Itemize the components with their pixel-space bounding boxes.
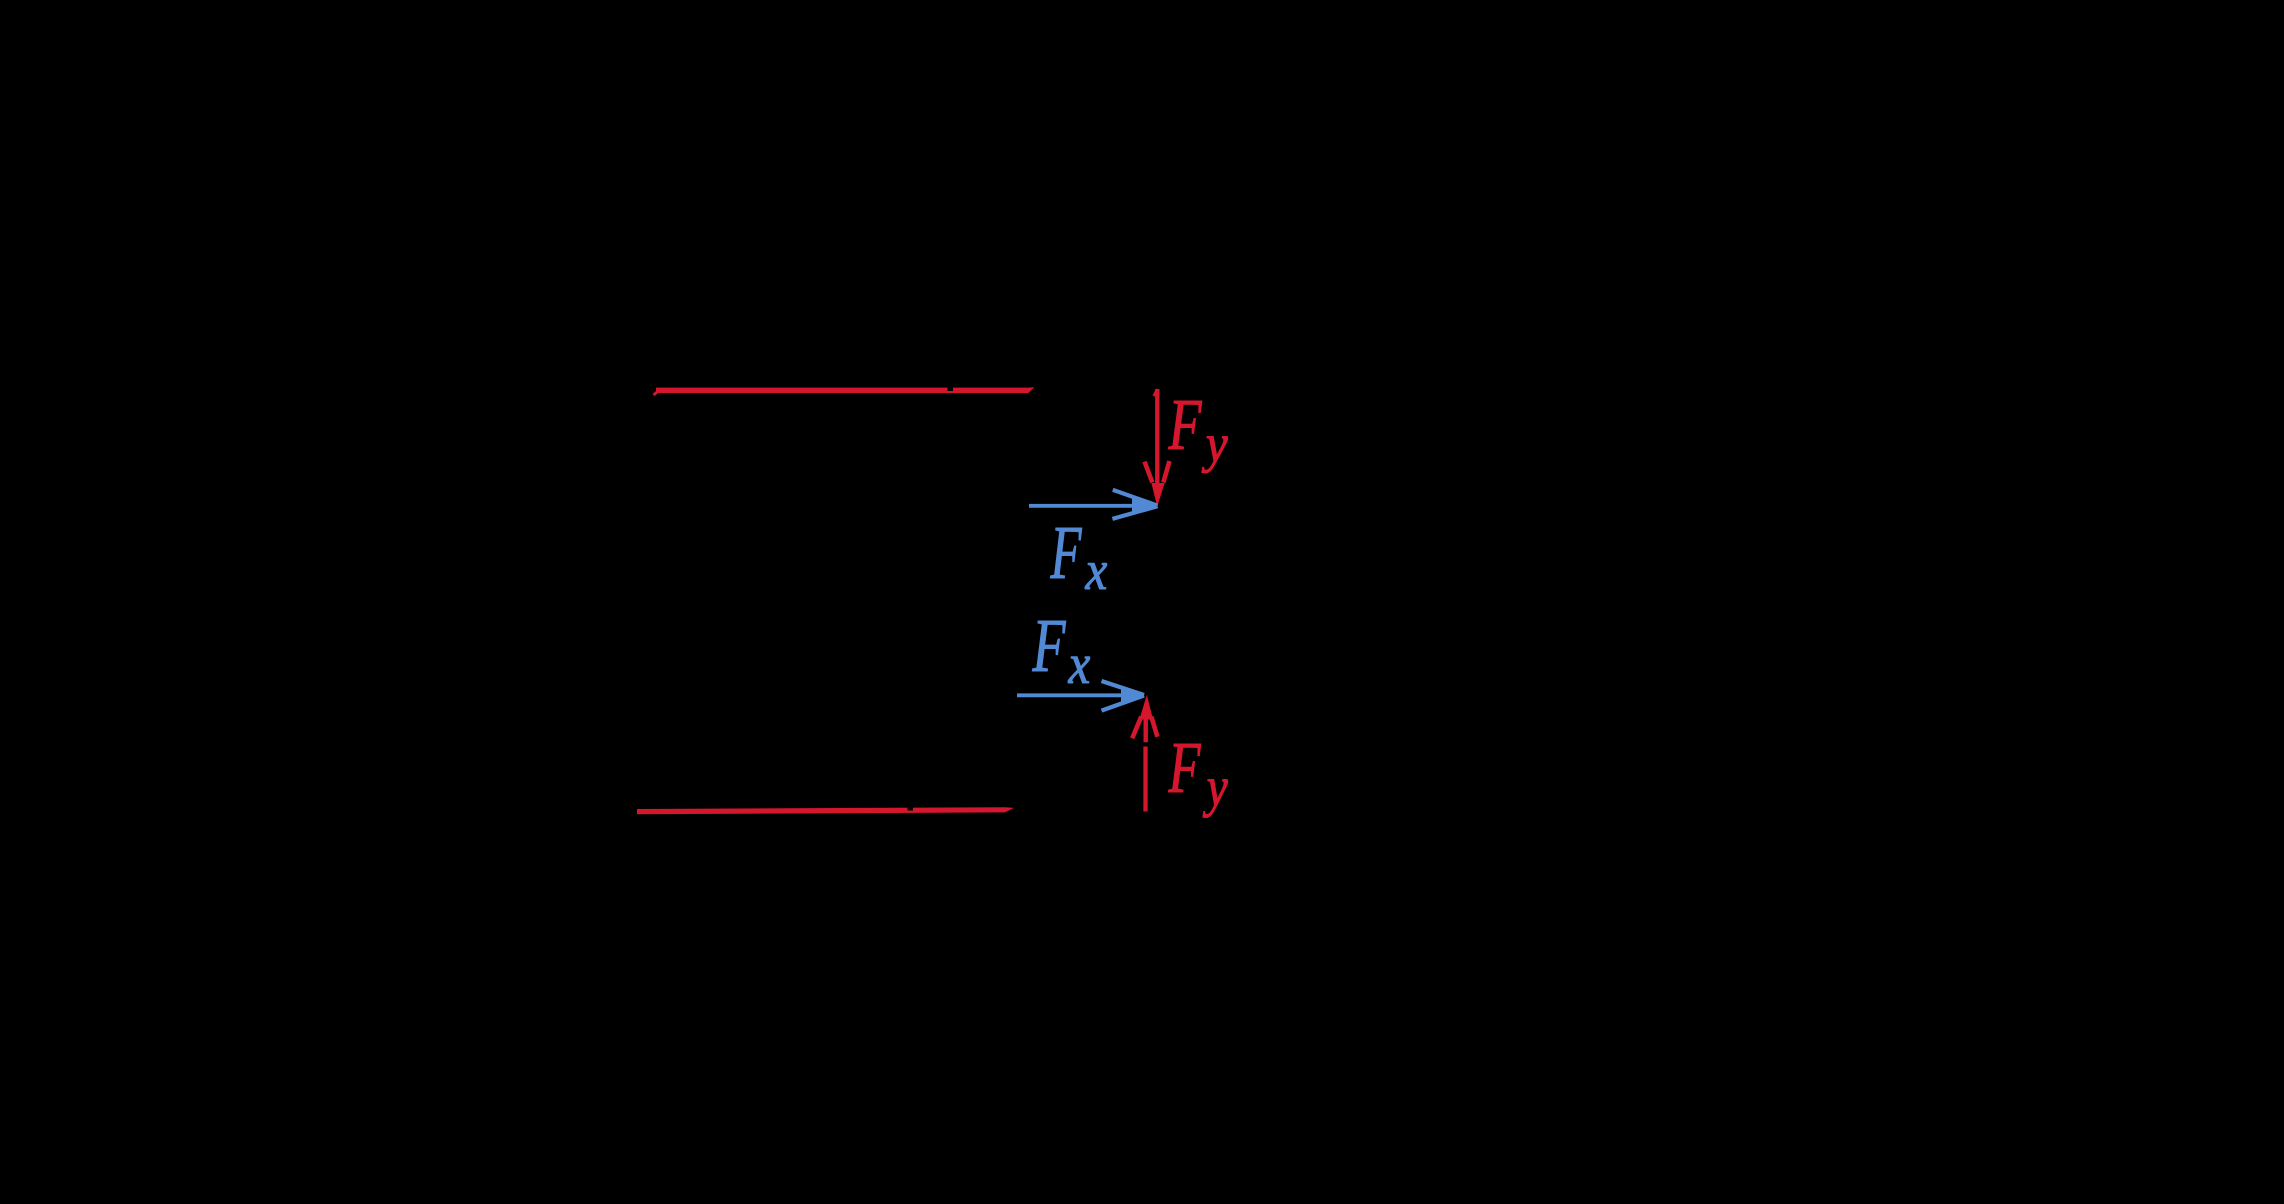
svg-text:y: y: [1202, 757, 1228, 819]
force arrow Fx right (blue), lower: [1017, 681, 1145, 711]
label Fx (lower, blue): [1032, 604, 1091, 696]
label Fy (top, red): [1168, 384, 1228, 474]
bottom red line (lower plate edge): [637, 806, 1014, 813]
force arrow Fx right (blue), upper: [1029, 490, 1158, 519]
svg-text:F: F: [1032, 604, 1066, 688]
label Fy (bottom, red): [1168, 726, 1228, 818]
force arrow Fy up (red), bottom joint: [1132, 695, 1157, 812]
svg-text:F: F: [1050, 511, 1082, 594]
svg-text:y: y: [1201, 414, 1227, 474]
top red line (upper plate edge): [654, 386, 1035, 396]
label Fx (upper, blue): [1050, 511, 1108, 602]
svg-text:F: F: [1168, 726, 1202, 808]
force arrow Fy down (red), top joint: [1145, 389, 1170, 507]
svg-text:F: F: [1168, 384, 1202, 465]
svg-text:x: x: [1068, 634, 1091, 696]
svg-text:x: x: [1085, 540, 1108, 602]
